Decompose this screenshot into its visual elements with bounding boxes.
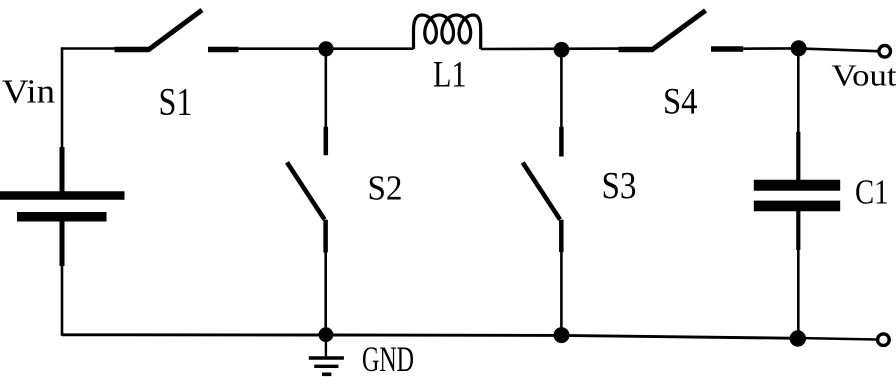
svg-text:L1: L1 [433, 55, 467, 96]
svg-text:S4: S4 [663, 81, 698, 122]
svg-text:GND: GND [362, 339, 414, 379]
svg-text:Vin: Vin [2, 73, 55, 110]
svg-text:S2: S2 [368, 169, 403, 208]
svg-text:C1: C1 [855, 172, 889, 211]
svg-text:Vout: Vout [832, 57, 896, 92]
svg-text:S3: S3 [602, 165, 637, 207]
svg-text:S1: S1 [159, 81, 193, 124]
